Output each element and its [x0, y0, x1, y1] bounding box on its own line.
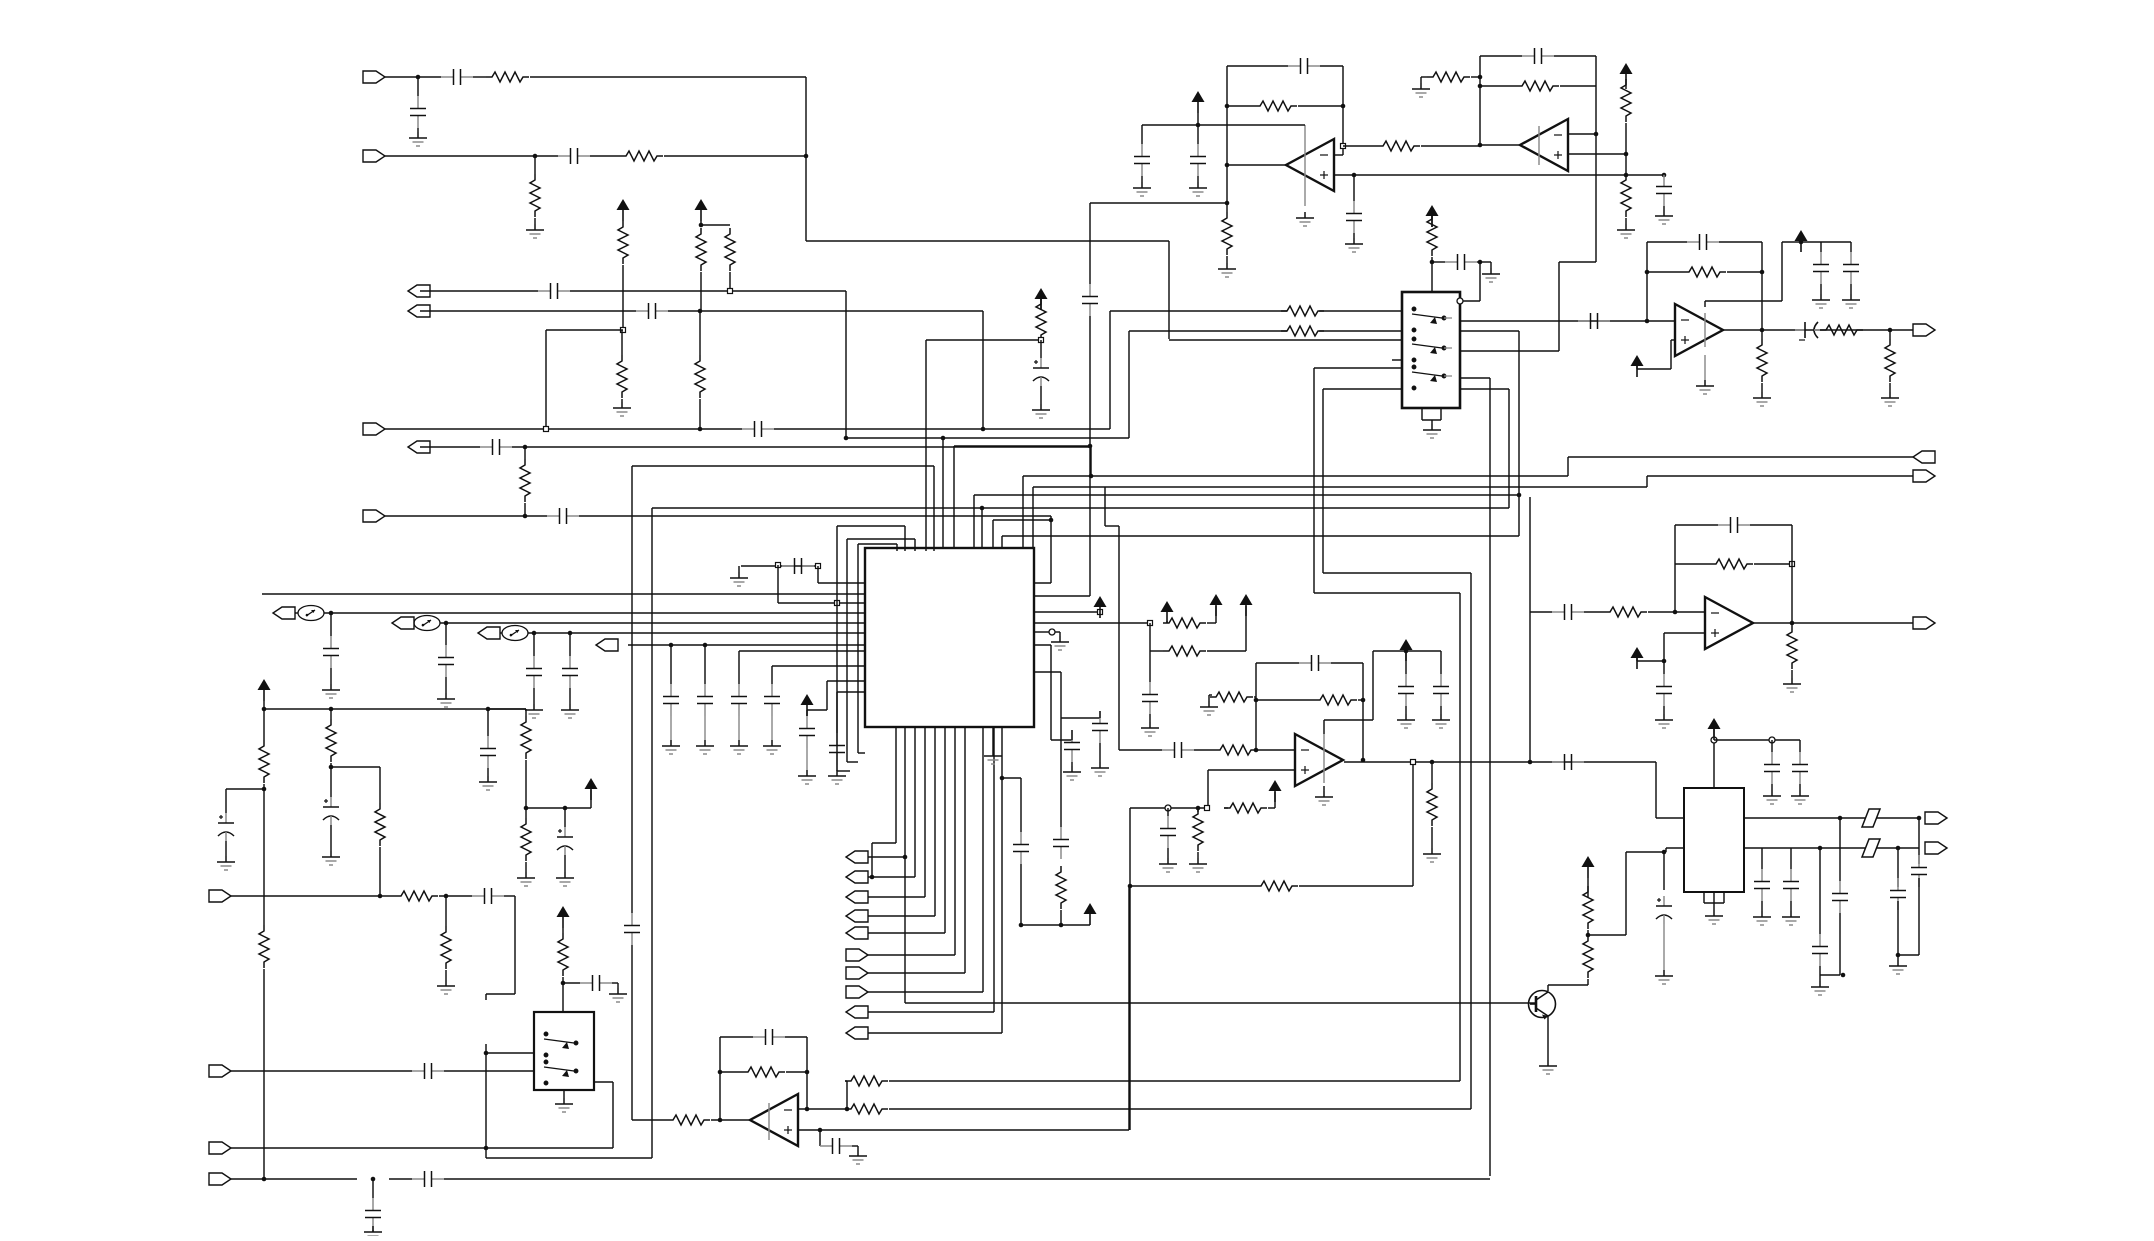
wire	[670, 716, 672, 740]
capacitor C59	[820, 1138, 852, 1154]
junction J65	[329, 765, 334, 770]
ground under C63	[1753, 911, 1771, 925]
wire long B	[889, 1108, 1471, 1110]
capacitor C40	[799, 716, 815, 748]
capacitor C58	[753, 1029, 785, 1045]
wire Q1 emitter	[1547, 1016, 1549, 1060]
wire U6 output long	[1344, 761, 1656, 763]
wire U7 pin L11	[837, 691, 865, 693]
wire U5-U6 link	[1529, 612, 1531, 762]
wire W3	[417, 128, 419, 132]
wire W73	[1268, 807, 1275, 809]
capacitor C31	[782, 558, 814, 574]
wire W41	[1477, 261, 1480, 263]
wire W140	[1587, 930, 1589, 935]
capacitor C55	[412, 1063, 444, 1079]
capacitor C25	[1162, 742, 1194, 758]
ground under C35	[561, 704, 579, 718]
ground under C61	[1763, 790, 1781, 804]
junction J85	[1838, 816, 1843, 821]
wire long vertical A	[1459, 593, 1461, 1081]
wire U4 fb left	[1646, 242, 1648, 321]
wire U1 power	[1304, 125, 1306, 206]
wire bus E	[974, 494, 1519, 496]
wire into SW2	[486, 1052, 534, 1054]
junction J82	[1662, 850, 1667, 855]
wire bus F drop	[1050, 516, 1052, 583]
ground under C39	[763, 740, 781, 754]
node R3	[1049, 629, 1055, 635]
power VCC P4	[1620, 63, 1633, 85]
wire W103	[1071, 730, 1073, 740]
resistor R50	[845, 1104, 888, 1114]
resistor R2	[530, 174, 540, 217]
op-amp U2	[1520, 119, 1568, 171]
resistor R35	[1163, 618, 1206, 628]
junction J21	[1478, 84, 1483, 89]
power VCC P22	[1708, 718, 1721, 740]
capacitor C29	[1160, 816, 1176, 848]
wire U9 fb top a	[720, 1036, 753, 1038]
wire L8 drop	[738, 651, 740, 684]
wire U4 gnd stem	[1704, 355, 1706, 380]
wire W21	[1353, 233, 1355, 238]
wire W1	[473, 76, 486, 78]
wire W38	[1663, 206, 1665, 210]
wire reg pin stub	[1665, 848, 1667, 852]
switch S2 inside U3	[1412, 337, 1452, 362]
capacitor C3	[558, 148, 590, 164]
power VCC P17	[1084, 903, 1097, 925]
ground G-dec	[730, 572, 748, 586]
resistor R26	[1787, 626, 1797, 669]
capacitor C4	[538, 283, 570, 299]
capacitor C18	[1687, 234, 1719, 250]
wire W74	[1167, 808, 1169, 816]
connector IN5	[209, 890, 231, 902]
junction J72	[484, 1146, 489, 1151]
capacitor C50	[323, 797, 339, 825]
junction J80	[818, 1128, 823, 1133]
junction J76	[718, 1070, 723, 1075]
wire W79	[1431, 827, 1433, 848]
capacitor C43	[624, 913, 640, 945]
wire W10	[621, 399, 623, 402]
wire VCC rail D	[1714, 739, 1800, 741]
wire W46	[1636, 365, 1638, 369]
wire U1 minus	[1334, 154, 1343, 156]
wire W5 riser	[1109, 311, 1111, 429]
wire W87	[569, 633, 571, 656]
junction J8	[523, 445, 528, 450]
resistor R46	[558, 933, 568, 976]
wire fb bottom riser	[1412, 760, 1414, 886]
resistor R4	[618, 221, 628, 264]
connector TP2	[392, 617, 414, 629]
junction J77	[805, 1070, 810, 1075]
wire U7 pin T4	[925, 340, 927, 551]
wire W3b	[570, 290, 846, 292]
wire W8	[622, 265, 624, 330]
wire U2 minus	[1568, 133, 1596, 135]
capacitor C17	[1578, 313, 1610, 329]
wire W150	[1790, 848, 1792, 869]
wire U7 pin T12	[981, 508, 983, 551]
wire W20	[1353, 175, 1355, 201]
power VCC P6	[1631, 355, 1644, 377]
wire fb bottom b	[1299, 885, 1413, 887]
ground under R2	[526, 224, 544, 238]
wire cap drop b	[1020, 864, 1022, 925]
wire	[771, 716, 773, 740]
node R2	[1148, 621, 1153, 626]
wire U3 in5	[1323, 388, 1402, 390]
connector TP1	[273, 607, 295, 619]
wire node D link	[846, 437, 1129, 439]
resistor R34	[1036, 298, 1046, 341]
wire U7 pin R5	[1034, 671, 1061, 673]
ground under C56	[364, 1226, 382, 1240]
capacitor C6	[742, 421, 774, 437]
wire U1 fb mid	[1298, 105, 1343, 107]
junction J71	[561, 981, 566, 986]
wire U2 fb mid	[1560, 85, 1596, 87]
junction J39	[1790, 621, 1795, 626]
wire U7 pin T14	[1032, 487, 1034, 551]
wire wrap A end	[858, 752, 865, 754]
wire W6 jog	[1090, 447, 1092, 476]
node L3b	[835, 601, 840, 606]
ground under C38	[730, 740, 748, 754]
resistor R21	[1757, 339, 1767, 382]
wire W5	[534, 218, 536, 224]
resistor R38	[259, 740, 269, 783]
power VCC P5	[1426, 205, 1439, 227]
junction J60	[1019, 923, 1024, 928]
connector IN4	[363, 510, 385, 522]
wire bus F	[993, 519, 1051, 521]
wire trunk down	[1168, 241, 1170, 339]
wire U8 out	[594, 1081, 613, 1083]
wire to VCC a	[1215, 606, 1217, 623]
power VCC P10	[1269, 780, 1282, 802]
resistor R37	[1056, 866, 1066, 909]
wire W104	[1071, 762, 1073, 766]
wire conn col 2	[868, 876, 915, 878]
resistor R8	[695, 355, 705, 398]
wire W135	[845, 1080, 847, 1082]
resistor R27	[1214, 745, 1257, 755]
wire W28	[1226, 256, 1228, 263]
capacitor C2	[410, 96, 426, 128]
capacitor C36	[663, 684, 679, 716]
resistor R16	[1427, 72, 1470, 82]
power VCC P8	[1631, 647, 1644, 669]
ground under C2	[409, 132, 427, 146]
wire U7 pin L1	[818, 582, 865, 584]
wire W107	[263, 701, 265, 709]
junction J15	[1225, 163, 1230, 168]
ground under C19	[1812, 294, 1830, 308]
wire C66 join	[1820, 974, 1840, 976]
ground under C15	[1655, 210, 1673, 224]
wire U9 minus a	[798, 1108, 847, 1110]
wire bus A drop	[1567, 457, 1569, 476]
wire U7 pin B7	[954, 727, 956, 955]
ground under U10	[1705, 910, 1723, 924]
capacitor C12	[1134, 144, 1150, 176]
capacitor C60	[1656, 896, 1672, 924]
wire W90	[704, 645, 706, 684]
wire IN2	[385, 155, 558, 157]
wire U1 fb right	[1342, 66, 1344, 155]
wire reg path up	[1625, 852, 1627, 935]
wire W154	[1918, 878, 1920, 955]
microcontroller U7	[865, 548, 1034, 727]
wire U7 pin R-A	[1034, 582, 1051, 584]
ground under R33	[1423, 848, 1441, 862]
wire W137	[852, 1145, 858, 1147]
wire W51	[1761, 330, 1763, 339]
capacitor C54	[580, 975, 612, 991]
wire W151	[1790, 901, 1792, 911]
wire R5 to C46	[1061, 717, 1100, 719]
junction J29	[980, 506, 985, 511]
wire W119	[487, 709, 489, 736]
ground under C51	[479, 776, 497, 790]
op-amp U4	[1675, 304, 1723, 356]
wire U7 pin B2 long	[904, 727, 906, 1003]
wire W124	[564, 808, 566, 827]
wire mux out1	[1460, 320, 1647, 322]
wire U7 pin B9	[982, 727, 984, 992]
wire mux out1b	[1460, 330, 1519, 332]
wire W30	[1420, 77, 1422, 83]
capacitor C7	[480, 439, 512, 455]
wire wrap A	[857, 544, 859, 753]
ground under B12	[984, 750, 1002, 764]
resistor R1	[486, 72, 529, 82]
wire W4 down	[982, 311, 984, 429]
wire U4 fb mid	[1727, 271, 1762, 273]
wire W19	[1343, 145, 1377, 147]
resistor R25	[1710, 559, 1753, 569]
capacitor C41	[829, 733, 845, 765]
ground G-R3	[1051, 636, 1069, 650]
connector IN3	[363, 423, 385, 435]
power VCC P2	[695, 199, 708, 221]
wire W102	[1059, 632, 1061, 636]
capacitor C53	[472, 888, 504, 904]
ground under C67	[1889, 960, 1907, 974]
wire U2 output	[1480, 144, 1519, 146]
wire W67	[1358, 699, 1363, 701]
wire U7 pin T13	[1022, 476, 1024, 551]
wire W134	[720, 1071, 742, 1073]
wire mux out4	[1460, 388, 1509, 390]
wire W126	[445, 896, 447, 926]
wire U7 pin L2 long	[262, 593, 865, 595]
wire W39	[1431, 213, 1433, 227]
connector OUT1	[408, 285, 430, 297]
node B	[728, 289, 733, 294]
wire bias loop down	[1129, 808, 1131, 1130]
wire C67 C68 join	[1898, 954, 1919, 956]
wire U7 pin B5	[934, 727, 936, 916]
wire W120	[487, 768, 489, 776]
junction J23	[1594, 132, 1599, 137]
wire W83	[445, 623, 447, 645]
stub U3 gnd b	[1440, 408, 1442, 420]
wire W118	[379, 847, 381, 896]
wire mux in5 link	[1323, 572, 1471, 574]
power VCC P13	[1094, 596, 1107, 618]
node bias	[1165, 805, 1171, 811]
ground under C62	[1791, 790, 1809, 804]
resistor R41	[375, 803, 385, 846]
ground under C41	[828, 770, 846, 784]
wire W115	[330, 767, 332, 797]
resistor R52	[1583, 935, 1593, 978]
wire W112	[263, 789, 265, 925]
capacitor C8	[547, 508, 579, 524]
junction J48	[1430, 760, 1435, 765]
wire W142	[1713, 728, 1715, 737]
wire W14	[699, 311, 701, 355]
wire U9 fb left	[719, 1037, 721, 1120]
junction J59	[1000, 776, 1005, 781]
wire VCC rail B	[1021, 924, 1090, 926]
wire W6	[590, 155, 620, 157]
junction J66	[524, 806, 529, 811]
wire W5b	[774, 428, 1110, 430]
resistor R45	[441, 926, 451, 969]
junction J31	[1645, 270, 1650, 275]
wire W52	[1761, 383, 1763, 392]
resistor R43	[521, 818, 531, 861]
wire U2 fb top a	[1480, 55, 1522, 57]
wire U7 pin T2	[904, 526, 906, 551]
wire conn col 8	[868, 991, 983, 993]
node U3 sense	[1457, 298, 1463, 304]
wire W96	[1166, 621, 1168, 623]
switch S5 inside U8	[544, 1060, 578, 1085]
connector OUT2	[408, 305, 430, 317]
junction J17	[1341, 104, 1346, 109]
wire mux out1b drop	[1518, 331, 1520, 536]
wire U9 plus	[798, 1129, 1129, 1131]
wire W15	[699, 399, 701, 429]
ground under C37	[696, 740, 714, 754]
connector OUT5	[1913, 451, 1935, 463]
power VCC P1	[617, 199, 630, 221]
wire wrap B end	[847, 761, 858, 763]
wire W68	[1405, 651, 1407, 674]
wire W66	[1256, 699, 1314, 701]
resistor R19	[1427, 213, 1437, 256]
wire U6 in b	[1258, 749, 1295, 751]
wire mux out2	[1460, 350, 1559, 352]
resistor R49	[845, 1076, 888, 1086]
connector TP3	[478, 627, 500, 639]
junction J32	[1760, 270, 1765, 275]
junction J28	[1478, 260, 1483, 265]
wire opamp1 out to fb	[1090, 202, 1227, 204]
wire W8b	[439, 895, 472, 897]
wire U7 pin L9	[772, 665, 865, 667]
ground under C46	[1091, 762, 1109, 776]
capacitor C56	[365, 1198, 381, 1230]
wire link riser	[1128, 331, 1130, 438]
wire W127	[445, 970, 447, 980]
ground under C24	[1655, 714, 1673, 728]
wire T2 wrap	[837, 525, 905, 527]
wire U4 fb top b	[1719, 241, 1762, 243]
wire VCC rail U1	[1142, 124, 1305, 126]
wire T1 wrap	[858, 543, 897, 545]
junction J26	[1624, 173, 1629, 178]
regulator U10	[1684, 788, 1744, 892]
capacitor C30	[1552, 754, 1584, 770]
wire bias rail	[526, 807, 591, 809]
wire conn col 5	[868, 932, 945, 934]
wire W132	[372, 1179, 374, 1198]
junction J43	[1361, 698, 1366, 703]
resistor R22	[1820, 325, 1863, 335]
op-amp U6	[1295, 734, 1343, 786]
wire W149	[1761, 901, 1763, 911]
connector P9-col	[846, 1006, 868, 1018]
analog switch U3	[1402, 292, 1460, 408]
wire U4 plus a	[1671, 339, 1675, 341]
wire W16	[524, 447, 526, 459]
connector P2-col	[846, 871, 868, 883]
wire W49	[1850, 242, 1852, 252]
wire W63	[1208, 695, 1210, 701]
ground under R43	[517, 872, 535, 886]
resistor R14	[1222, 212, 1232, 255]
junction J36	[1517, 493, 1522, 498]
wire U7 pin R2	[1034, 622, 1150, 624]
capacitor C32	[323, 636, 339, 668]
junction J51	[444, 621, 449, 626]
wire U5 in b	[1648, 611, 1675, 613]
wire W71	[1440, 706, 1442, 714]
wire long vertical C	[651, 508, 653, 1158]
wire W72	[1224, 807, 1228, 809]
wire long A	[889, 1080, 1460, 1082]
wire transistor base long	[905, 1002, 1536, 1004]
capacitor C13	[1190, 144, 1206, 176]
ground G-C59	[849, 1150, 867, 1164]
wire riser to drop	[954, 445, 1090, 447]
ground under C64	[1782, 911, 1800, 925]
power VCC P20	[557, 906, 570, 928]
wire W58	[1791, 670, 1793, 678]
junction J13	[1088, 444, 1093, 449]
wire to C68	[1918, 818, 1920, 864]
wire to C65	[1819, 848, 1821, 934]
junction J83	[1917, 816, 1922, 821]
wire U7 pin B4	[924, 727, 926, 897]
junction J68	[378, 894, 383, 899]
connector OUT9	[1925, 842, 1947, 854]
wire W139	[1587, 878, 1589, 897]
wire U6 pwr a	[1324, 719, 1373, 721]
wire U4 power	[1704, 313, 1706, 347]
junction J87	[1896, 846, 1901, 851]
capacitor C9	[1082, 284, 1098, 316]
